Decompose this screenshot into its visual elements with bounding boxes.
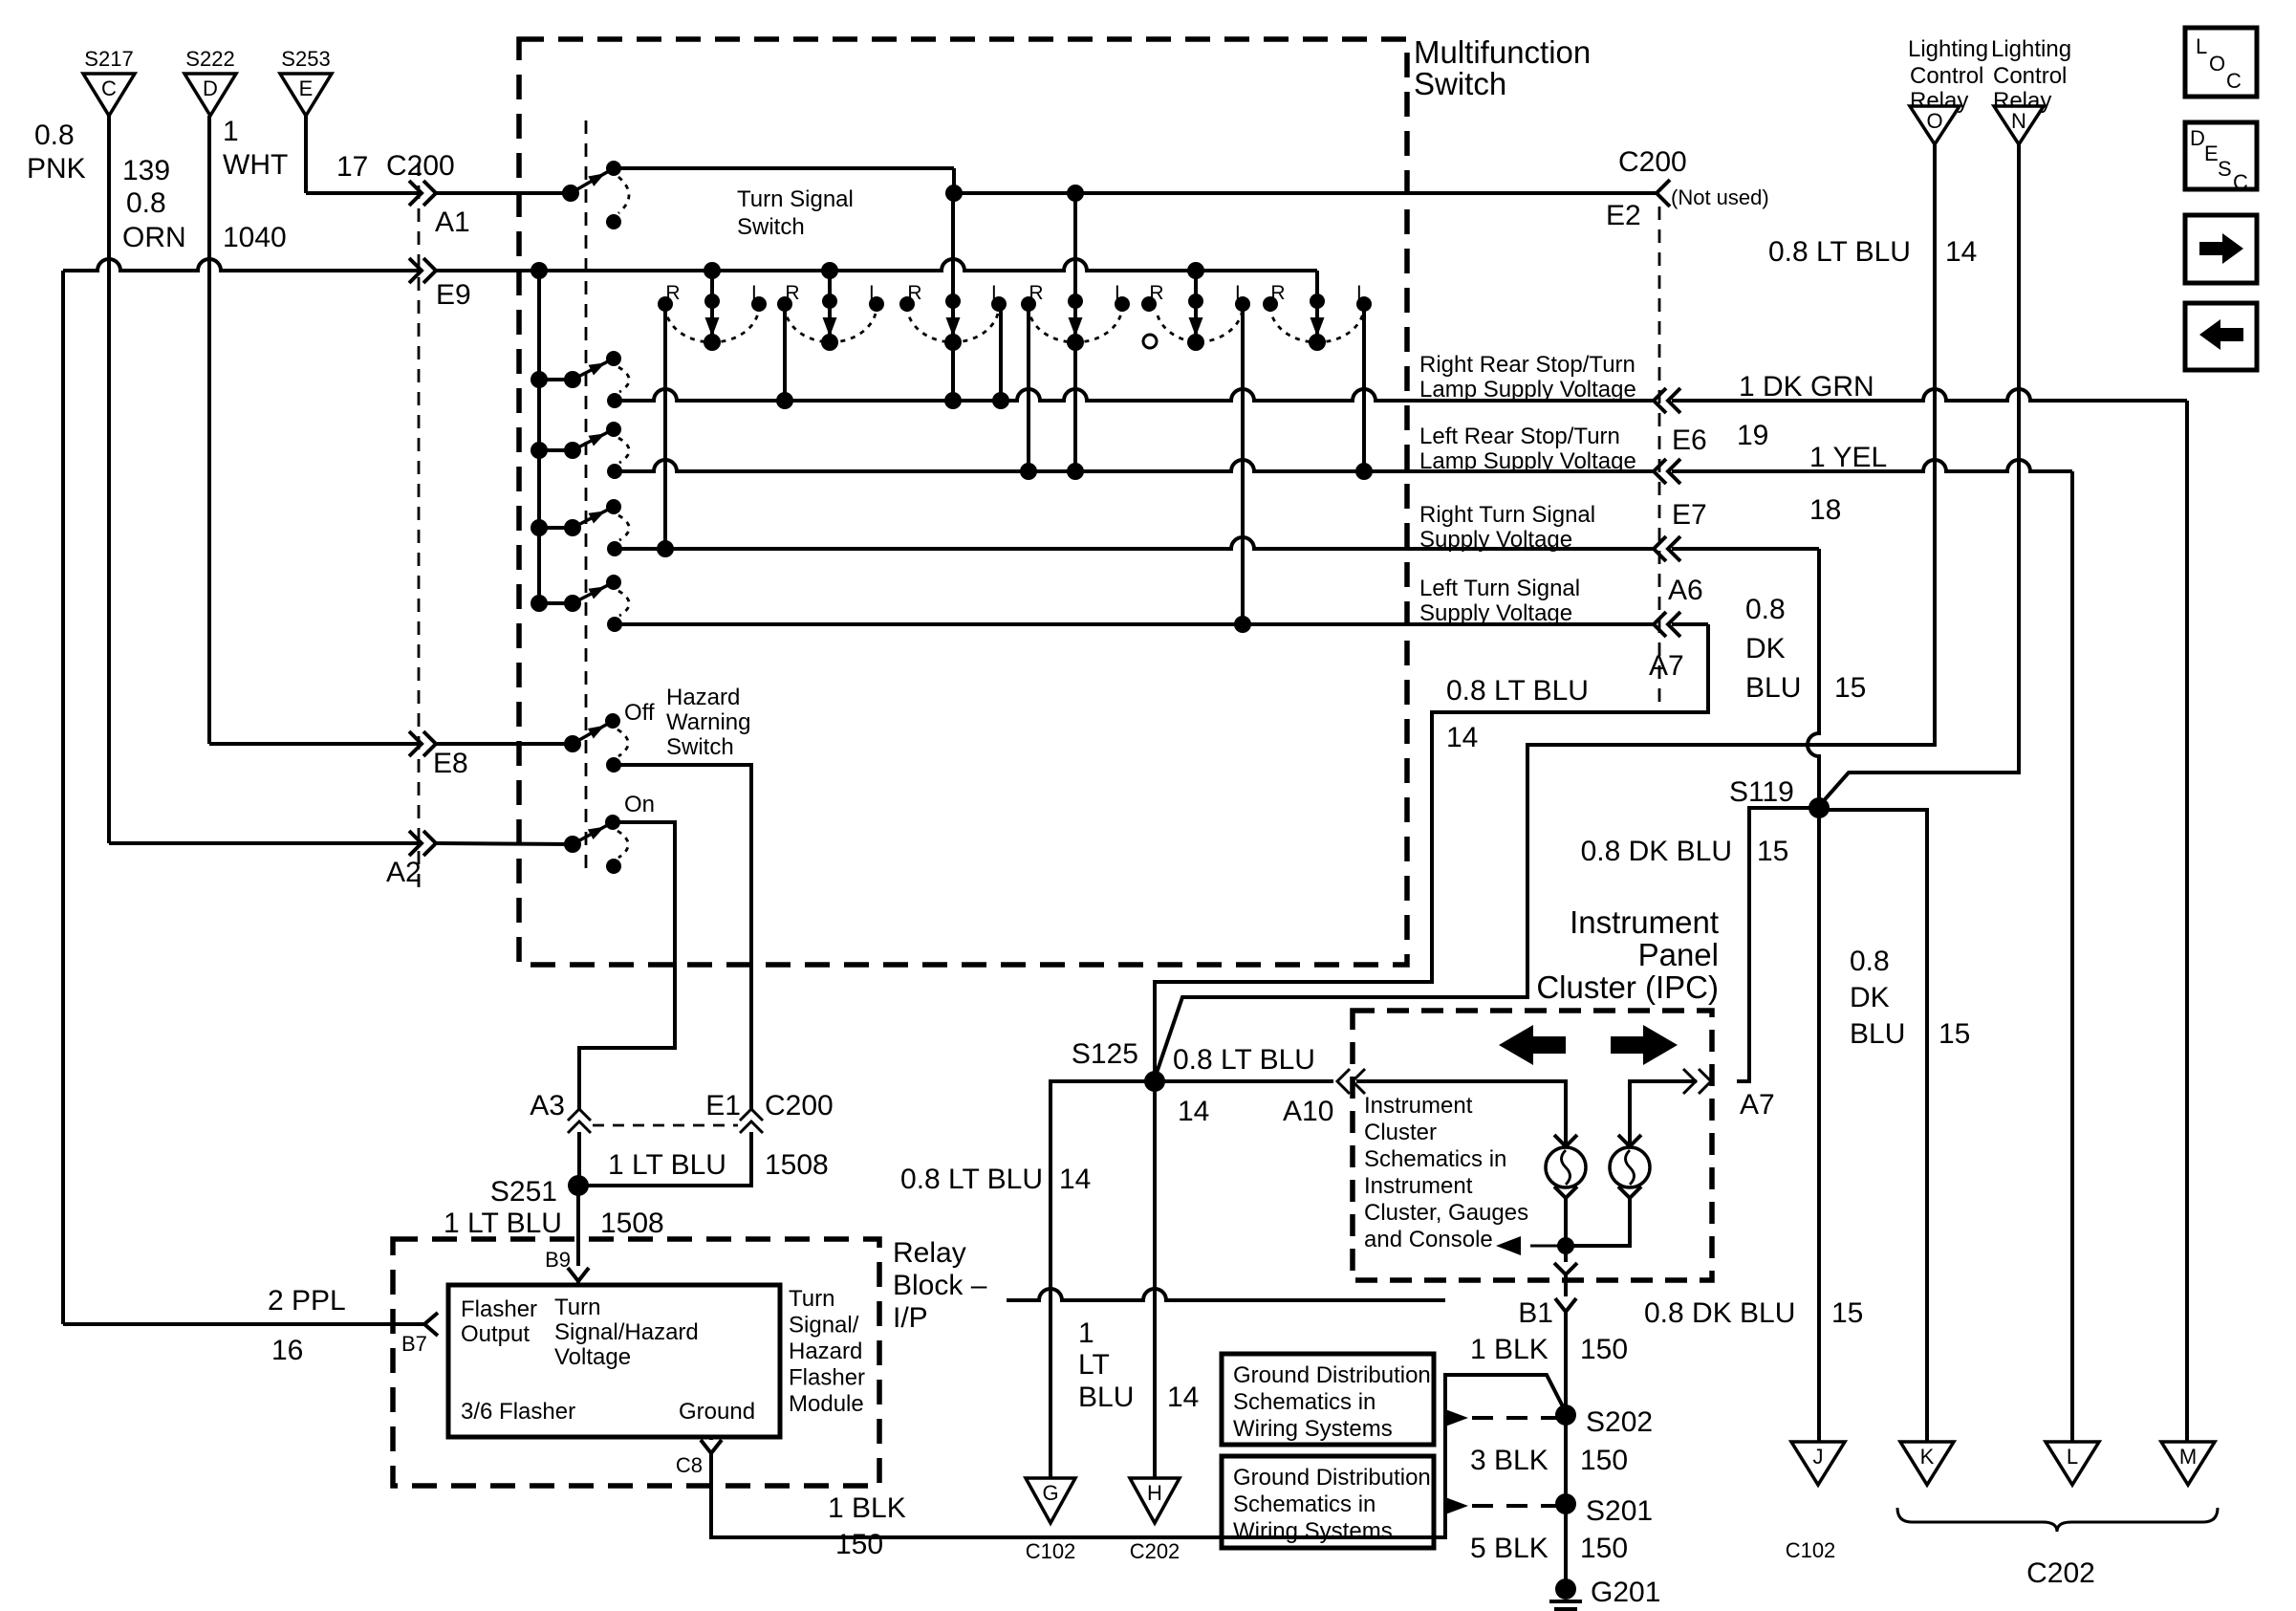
- svg-text:2 PPL: 2 PPL: [268, 1285, 346, 1317]
- svg-text:A2: A2: [386, 857, 422, 888]
- svg-text:A3: A3: [530, 1090, 565, 1121]
- turn signal switch pole 3: [531, 442, 548, 459]
- svg-text:C8: C8: [676, 1453, 703, 1477]
- svg-text:15: 15: [1757, 836, 1788, 867]
- wire group3 center from A1 row to row1: [951, 193, 955, 401]
- brace C202: [1897, 1508, 2218, 1532]
- svg-text:DK: DK: [1745, 633, 1786, 664]
- wire row3 right turn signal supply: [615, 537, 1654, 549]
- svg-text:0.8: 0.8: [34, 120, 75, 151]
- wire row3 to S119: [1672, 547, 1819, 551]
- svg-text:Supply Voltage: Supply Voltage: [1419, 527, 1572, 553]
- connector M triangle: [2161, 1442, 2215, 1485]
- svg-text:0.8 LT BLU: 0.8 LT BLU: [1173, 1044, 1315, 1076]
- svg-text:A6: A6: [1668, 575, 1703, 606]
- IPC right arrow symbol: [1611, 1025, 1678, 1065]
- ground G201: [1555, 1578, 1576, 1600]
- ground distribution box 1: [1222, 1354, 1434, 1445]
- svg-text:and Console: and Console: [1364, 1227, 1493, 1252]
- svg-text:Turn: Turn: [789, 1286, 834, 1312]
- svg-text:5 BLK: 5 BLK: [1470, 1533, 1549, 1564]
- wire N relay to S119: [1819, 144, 2019, 806]
- dashed arrow to S202: [1445, 1409, 1468, 1426]
- svg-text:Flasher: Flasher: [461, 1296, 537, 1322]
- svg-text:Hazard: Hazard: [666, 685, 740, 710]
- connector L triangle: [2046, 1442, 2099, 1485]
- svg-text:Instrument: Instrument: [1570, 904, 1719, 940]
- svg-text:Cluster, Gauges: Cluster, Gauges: [1364, 1200, 1528, 1226]
- svg-text:150: 150: [835, 1529, 883, 1560]
- wire S125 to A10: [1155, 1079, 1333, 1083]
- svg-text:Module: Module: [789, 1391, 864, 1417]
- svg-text:0.8 DK BLU: 0.8 DK BLU: [1644, 1297, 1795, 1329]
- svg-text:1: 1: [223, 116, 239, 147]
- svg-text:C200: C200: [386, 150, 455, 182]
- svg-text:S222: S222: [185, 47, 234, 71]
- connector C8: [701, 1440, 722, 1453]
- svg-text:C200: C200: [1618, 146, 1687, 178]
- svg-text:L: L: [2196, 34, 2207, 58]
- svg-text:14: 14: [1178, 1096, 1209, 1127]
- svg-text:3/6 Flasher: 3/6 Flasher: [461, 1399, 575, 1425]
- svg-text:S217: S217: [84, 47, 133, 71]
- wire group3 L to row1: [999, 304, 1003, 401]
- svg-text:Schematics in: Schematics in: [1233, 1491, 1375, 1517]
- multifunction switch box: [519, 39, 1407, 965]
- svg-text:Left Rear Stop/Turn: Left Rear Stop/Turn: [1419, 424, 1620, 449]
- turn signal switch pole 5: [531, 595, 548, 612]
- switch linkage dashed line: [585, 120, 588, 870]
- svg-text:15: 15: [1831, 1297, 1863, 1329]
- wire group4 R to row2: [1027, 304, 1030, 471]
- svg-text:Switch: Switch: [737, 214, 805, 240]
- svg-text:N: N: [2011, 109, 2026, 133]
- svg-text:C102: C102: [1026, 1539, 1076, 1563]
- svg-text:BLU: BLU: [1850, 1018, 1905, 1050]
- svg-text:BLU: BLU: [1078, 1382, 1134, 1413]
- svg-text:C: C: [2233, 170, 2248, 194]
- svg-text:Schematics in: Schematics in: [1233, 1389, 1375, 1415]
- legend box right arrow: [2185, 215, 2257, 283]
- svg-text:O: O: [1926, 109, 1942, 133]
- svg-text:0.8 LT BLU: 0.8 LT BLU: [900, 1164, 1043, 1195]
- svg-text:Turn: Turn: [554, 1295, 600, 1320]
- svg-text:3 BLK: 3 BLK: [1470, 1445, 1549, 1476]
- wire S251 to B9: [576, 1186, 580, 1266]
- svg-text:Right Rear Stop/Turn: Right Rear Stop/Turn: [1419, 352, 1635, 378]
- wire S119 to IPC A7 input: [1737, 808, 1819, 1081]
- svg-text:A1: A1: [435, 207, 470, 238]
- svg-text:Lamp Supply Voltage: Lamp Supply Voltage: [1419, 377, 1636, 403]
- hazard switch Off output wire to E1: [614, 765, 751, 1111]
- svg-text:15: 15: [1834, 672, 1866, 704]
- svg-text:18: 18: [1809, 494, 1841, 526]
- wire S119 to K: [1819, 810, 1927, 1442]
- svg-text:0.8: 0.8: [126, 187, 166, 219]
- wire row1 to M: [1672, 389, 2187, 401]
- svg-text:Cluster: Cluster: [1364, 1120, 1437, 1145]
- connector G triangle: [1026, 1478, 1075, 1523]
- connector C200 A6: [1654, 536, 1666, 561]
- IPC junction to B1: [1557, 1237, 1574, 1254]
- wire S119 down to J: [1817, 808, 1821, 1442]
- relay block box: [393, 1239, 879, 1486]
- connector C200 E8: [423, 731, 436, 756]
- wire S125 down to H: [1153, 1081, 1157, 1478]
- svg-text:E2: E2: [1606, 200, 1641, 231]
- svg-text:0.8: 0.8: [1850, 946, 1890, 977]
- turn signal switch arm A1: [562, 185, 579, 202]
- svg-text:B1: B1: [1518, 1297, 1553, 1329]
- svg-text:Switch: Switch: [1414, 66, 1506, 101]
- svg-text:Off: Off: [624, 700, 655, 726]
- connector B7: [424, 1313, 438, 1336]
- wire row2 left rear stop/turn: [615, 460, 1654, 471]
- lamp left turn indicator: [1546, 1147, 1586, 1187]
- svg-text:S125: S125: [1072, 1038, 1138, 1070]
- svg-text:B7: B7: [401, 1332, 427, 1356]
- svg-text:Right Turn Signal: Right Turn Signal: [1419, 502, 1595, 528]
- connector C200 A7: [1654, 612, 1666, 637]
- svg-text:150: 150: [1580, 1334, 1628, 1365]
- svg-text:1040: 1040: [223, 222, 287, 253]
- svg-text:G201: G201: [1591, 1577, 1660, 1608]
- svg-text:O: O: [2209, 52, 2225, 76]
- svg-text:C: C: [2226, 69, 2242, 93]
- svg-text:14: 14: [1059, 1164, 1091, 1195]
- wire from A1 switch to E2: [614, 166, 954, 170]
- svg-text:D: D: [2190, 126, 2205, 150]
- connector A3: [568, 1109, 591, 1121]
- splice S201: [1555, 1493, 1576, 1514]
- wire 1BLK horizontal with hops: [1007, 1289, 1445, 1300]
- svg-text:14: 14: [1945, 236, 1977, 268]
- svg-text:19: 19: [1737, 420, 1768, 451]
- flasher module box: [448, 1285, 780, 1437]
- IPC wire A7 to lamp2: [1630, 1081, 1697, 1143]
- wire A1 into switch: [436, 191, 571, 195]
- svg-text:Lighting: Lighting: [1908, 36, 1988, 62]
- lamp right turn indicator: [1610, 1147, 1650, 1187]
- wire group5 L to row4: [1241, 304, 1245, 624]
- svg-text:L: L: [2067, 1445, 2078, 1469]
- svg-text:1 LT BLU: 1 LT BLU: [444, 1208, 562, 1239]
- connector dashed line C200 right: [1658, 207, 1661, 704]
- turn signal switch pole 2: [531, 371, 548, 388]
- wire PNK from C to A2 row: [107, 116, 111, 843]
- connector K triangle: [1900, 1442, 1954, 1485]
- svg-text:ORN: ORN: [122, 222, 186, 253]
- svg-text:1508: 1508: [600, 1208, 664, 1239]
- svg-text:Instrument: Instrument: [1364, 1093, 1473, 1119]
- connector E1: [740, 1109, 763, 1121]
- svg-text:Ground Distribution: Ground Distribution: [1233, 1362, 1431, 1388]
- connector C200 E9: [423, 258, 436, 283]
- svg-text:Multifunction: Multifunction: [1414, 34, 1591, 70]
- svg-text:Voltage: Voltage: [554, 1344, 631, 1370]
- svg-text:J: J: [1813, 1445, 1824, 1469]
- svg-text:0.8 DK BLU: 0.8 DK BLU: [1581, 836, 1732, 867]
- IPC wire A10 to lamp1: [1356, 1081, 1566, 1143]
- connector O triangle: [1910, 106, 1960, 144]
- wire group6 L to row2: [1362, 304, 1366, 471]
- svg-text:0.8 LT BLU: 0.8 LT BLU: [1768, 236, 1911, 268]
- svg-text:139: 139: [122, 155, 170, 186]
- svg-text:1 YEL: 1 YEL: [1809, 442, 1887, 473]
- svg-text:Wiring Systems: Wiring Systems: [1233, 1518, 1393, 1544]
- wire B9 into flasher box: [576, 1281, 580, 1285]
- svg-text:E1: E1: [705, 1090, 741, 1121]
- connector C200 A2: [423, 831, 436, 856]
- svg-text:On: On: [624, 792, 655, 817]
- wire group2 R to row1: [783, 304, 787, 401]
- svg-text:Left Turn Signal: Left Turn Signal: [1419, 576, 1580, 601]
- hazard switch On output wire to A3: [579, 822, 675, 1111]
- svg-text:S119: S119: [1729, 776, 1794, 808]
- svg-text:S201: S201: [1586, 1495, 1653, 1527]
- wire group1 R to row3: [663, 304, 667, 549]
- svg-text:E9: E9: [436, 279, 471, 311]
- svg-text:S253: S253: [281, 47, 330, 71]
- svg-text:LT: LT: [1078, 1349, 1110, 1381]
- svg-text:1 BLK: 1 BLK: [828, 1492, 906, 1524]
- connector J triangle: [1791, 1442, 1845, 1485]
- svg-text:Flasher: Flasher: [789, 1365, 865, 1391]
- svg-text:Instrument: Instrument: [1364, 1173, 1473, 1199]
- instrument panel cluster box: [1353, 1011, 1712, 1280]
- svg-text:BLU: BLU: [1745, 672, 1801, 704]
- svg-text:14: 14: [1446, 722, 1478, 753]
- svg-text:A7: A7: [1740, 1089, 1775, 1121]
- svg-text:Signal/: Signal/: [789, 1313, 859, 1339]
- wire A3 to S251: [577, 1132, 581, 1186]
- svg-text:H: H: [1147, 1481, 1162, 1505]
- connector dashed line C200 A3-E1: [593, 1124, 738, 1127]
- IPC left arrow symbol: [1499, 1025, 1566, 1065]
- wire E9 feed from flasher: [61, 271, 65, 1324]
- ground distribution box 2: [1222, 1456, 1434, 1548]
- svg-text:M: M: [2179, 1445, 2197, 1469]
- svg-text:Turn Signal: Turn Signal: [737, 186, 854, 212]
- svg-text:C: C: [101, 76, 117, 100]
- connector B1: [1555, 1298, 1576, 1312]
- splice S251: [568, 1175, 589, 1196]
- wire row4 left turn signal supply: [615, 622, 1654, 626]
- legend box DESC: [2185, 122, 2257, 189]
- wire O relay to S125 via E8-path: [1155, 144, 1935, 1078]
- svg-text:0.8: 0.8: [1745, 594, 1786, 625]
- svg-text:S251: S251: [490, 1176, 557, 1208]
- svg-text:Ground: Ground: [679, 1399, 755, 1425]
- svg-text:1 LT BLU: 1 LT BLU: [608, 1149, 726, 1181]
- svg-text:Control: Control: [1993, 63, 2067, 89]
- svg-text:C200: C200: [765, 1090, 834, 1121]
- svg-text:15: 15: [1939, 1018, 1970, 1050]
- splice S202: [1555, 1404, 1576, 1426]
- wire C8 1 BLK to S202: [711, 1375, 1566, 1537]
- svg-text:Lighting: Lighting: [1991, 36, 2071, 62]
- connector N triangle: [1994, 106, 2044, 144]
- svg-text:Relay: Relay: [893, 1237, 966, 1269]
- svg-text:150: 150: [1580, 1445, 1628, 1476]
- svg-text:Hazard: Hazard: [789, 1339, 862, 1364]
- wire E1 to S251: [579, 1132, 751, 1186]
- svg-text:0.8 LT BLU: 0.8 LT BLU: [1446, 675, 1589, 707]
- svg-text:C102: C102: [1786, 1538, 1836, 1562]
- wire ORN from D to E8 row: [207, 116, 211, 744]
- svg-text:14: 14: [1167, 1382, 1199, 1413]
- wire row1 right rear stop/turn: [615, 389, 1654, 401]
- svg-text:1 DK GRN: 1 DK GRN: [1739, 371, 1874, 403]
- svg-text:S202: S202: [1586, 1406, 1653, 1438]
- turn signal switch pole 4: [531, 519, 548, 536]
- svg-text:Block –: Block –: [893, 1270, 987, 1301]
- wire row2 to L: [1672, 460, 2072, 471]
- svg-text:150: 150: [1580, 1533, 1628, 1564]
- wire S125 left to G: [1051, 1081, 1155, 1478]
- legend box LOC: [2185, 28, 2257, 97]
- svg-text:A7: A7: [1649, 650, 1684, 682]
- svg-text:C202: C202: [1130, 1539, 1180, 1563]
- switch bank bus from E9: [537, 271, 541, 603]
- svg-text:Output: Output: [461, 1321, 530, 1347]
- svg-text:G: G: [1042, 1481, 1058, 1505]
- connector dashed line C200 left: [418, 163, 421, 889]
- wire B7 flasher output: [63, 1322, 424, 1326]
- svg-text:1508: 1508: [765, 1149, 829, 1181]
- connector H triangle: [1130, 1478, 1180, 1523]
- svg-text:Lamp Supply Voltage: Lamp Supply Voltage: [1419, 448, 1636, 474]
- svg-text:WHT: WHT: [223, 149, 288, 181]
- connector A7 IPC output: [1699, 1069, 1711, 1094]
- svg-text:E7: E7: [1672, 499, 1707, 531]
- svg-text:E8: E8: [433, 748, 468, 779]
- svg-text:S: S: [2218, 157, 2232, 181]
- svg-text:Switch: Switch: [666, 734, 734, 760]
- svg-text:1: 1: [1078, 1317, 1094, 1349]
- svg-text:E6: E6: [1672, 425, 1707, 456]
- svg-text:Control: Control: [1910, 63, 1983, 89]
- svg-text:DK: DK: [1850, 982, 1890, 1013]
- svg-text:1 BLK: 1 BLK: [1470, 1334, 1549, 1365]
- svg-text:(Not used): (Not used): [1671, 185, 1769, 209]
- connector C200 E6: [1654, 388, 1666, 413]
- dashed arrow to S201: [1445, 1497, 1468, 1514]
- svg-text:C202: C202: [2026, 1557, 2095, 1589]
- svg-text:Warning: Warning: [666, 709, 750, 735]
- legend box left arrow: [2185, 303, 2257, 370]
- svg-text:Supply Voltage: Supply Voltage: [1419, 600, 1572, 626]
- svg-text:D: D: [203, 76, 218, 100]
- wire row4 to S125 via Z-path: [1672, 622, 1708, 626]
- svg-text:A10: A10: [1283, 1096, 1333, 1127]
- svg-text:Panel: Panel: [1638, 937, 1719, 972]
- svg-text:17: 17: [336, 151, 368, 183]
- svg-text:Schematics in: Schematics in: [1364, 1146, 1506, 1172]
- svg-text:B9: B9: [545, 1248, 571, 1272]
- hazard switch On: [564, 836, 581, 853]
- svg-text:16: 16: [271, 1335, 303, 1366]
- svg-text:E: E: [299, 76, 314, 100]
- svg-text:PNK: PNK: [27, 153, 86, 185]
- wire E9 bus into switch: [436, 259, 1317, 271]
- wire WHT from E to A1 row: [304, 116, 308, 193]
- svg-text:Cluster (IPC): Cluster (IPC): [1536, 969, 1719, 1005]
- svg-text:K: K: [1920, 1445, 1935, 1469]
- svg-text:I/P: I/P: [893, 1302, 928, 1334]
- connector C200 E7: [1654, 459, 1666, 484]
- wire group4 center from A1 row to row2: [1073, 193, 1077, 471]
- svg-text:Signal/Hazard: Signal/Hazard: [554, 1319, 699, 1345]
- svg-text:E: E: [2204, 142, 2219, 165]
- svg-text:Wiring Systems: Wiring Systems: [1233, 1416, 1393, 1442]
- svg-text:Ground Distribution: Ground Distribution: [1233, 1465, 1431, 1491]
